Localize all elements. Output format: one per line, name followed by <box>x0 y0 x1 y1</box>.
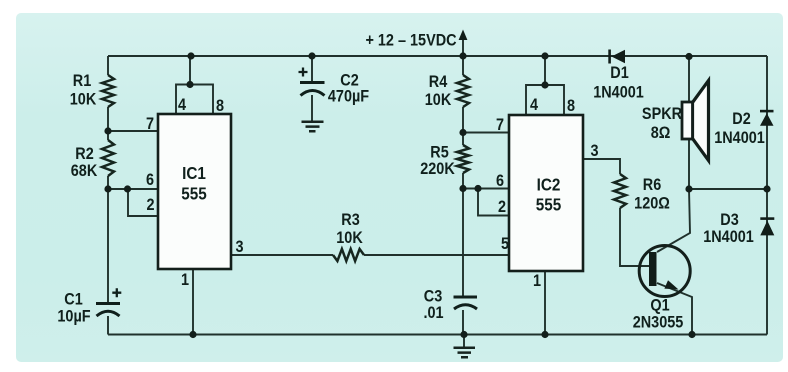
svg-text:1: 1 <box>533 272 541 290</box>
svg-text:D2: D2 <box>732 110 751 128</box>
svg-text:10µF: 10µF <box>57 307 91 325</box>
svg-text:R3: R3 <box>341 211 360 229</box>
svg-text:C1: C1 <box>64 290 83 308</box>
svg-text:D1: D1 <box>610 64 629 82</box>
svg-text:8: 8 <box>216 97 224 115</box>
svg-text:470µF: 470µF <box>328 87 370 105</box>
svg-text:R4: R4 <box>429 73 448 91</box>
svg-text:4: 4 <box>530 96 538 114</box>
svg-text:IC1: IC1 <box>182 163 206 183</box>
svg-text:6: 6 <box>146 171 154 189</box>
svg-text:555: 555 <box>181 183 207 203</box>
svg-text:10K: 10K <box>336 229 363 247</box>
svg-text:220K: 220K <box>420 160 455 178</box>
svg-text:R1: R1 <box>73 72 92 90</box>
svg-text:1N4001: 1N4001 <box>593 83 644 101</box>
svg-text:10K: 10K <box>425 91 452 109</box>
svg-text:IC2: IC2 <box>537 174 561 194</box>
svg-text:10K: 10K <box>70 90 97 108</box>
svg-text:SPKR: SPKR <box>642 105 683 123</box>
svg-text:4: 4 <box>178 96 186 114</box>
svg-text:2N3055: 2N3055 <box>633 313 684 331</box>
svg-text:68K: 68K <box>71 162 98 180</box>
svg-text:R2: R2 <box>75 145 94 163</box>
svg-text:8: 8 <box>567 97 575 115</box>
svg-text:3: 3 <box>235 238 243 256</box>
svg-text:.01: .01 <box>423 304 443 322</box>
svg-text:120Ω: 120Ω <box>634 194 670 212</box>
svg-text:3: 3 <box>590 142 598 160</box>
svg-text:Q1: Q1 <box>650 296 669 314</box>
svg-text:1: 1 <box>181 271 189 289</box>
svg-text:8Ω: 8Ω <box>651 124 671 142</box>
svg-text:555: 555 <box>536 194 562 214</box>
svg-text:D3: D3 <box>720 211 739 229</box>
svg-text:6: 6 <box>496 172 504 190</box>
svg-text:1N4001: 1N4001 <box>703 228 754 246</box>
svg-text:R6: R6 <box>643 176 662 194</box>
svg-text:7: 7 <box>146 115 154 133</box>
svg-text:+ 12 – 15VDC: + 12 – 15VDC <box>365 31 456 49</box>
svg-text:5: 5 <box>501 235 509 253</box>
svg-text:1N4001: 1N4001 <box>714 129 765 147</box>
svg-text:7: 7 <box>496 116 504 134</box>
svg-text:2: 2 <box>498 198 506 216</box>
svg-text:2: 2 <box>146 196 154 214</box>
